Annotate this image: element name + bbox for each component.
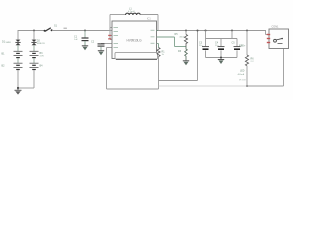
svg-text:LED: LED — [240, 71, 245, 73]
op-amp U1 — [112, 21, 157, 59]
svg-text:4.7mH: 4.7mH — [128, 11, 135, 13]
capacitor C1 — [74, 31, 89, 46]
capacitor C4 — [215, 42, 225, 50]
ground left — [15, 88, 22, 95]
node R5 top — [185, 30, 187, 32]
ground under C1 — [82, 46, 88, 51]
ground under C2 — [98, 51, 104, 56]
inductor L1 — [110, 8, 158, 16]
resistor R3 chain to ground — [178, 47, 187, 61]
svg-text:R6: R6 — [251, 58, 255, 61]
wire top right rail — [157, 30, 267, 32]
ground caps — [218, 60, 224, 65]
node ground join — [17, 87, 19, 89]
pad strip under U1 — [115, 53, 158, 60]
svg-text:LED+: LED+ — [240, 46, 246, 48]
wire IC pin5 down-left loop — [107, 48, 159, 90]
resistor R1 — [157, 48, 165, 57]
battery B4 — [30, 63, 44, 69]
svg-text:R5: R5 — [175, 33, 179, 36]
ground under R3 — [183, 61, 189, 66]
node junction col2 top — [33, 30, 35, 32]
svg-text:SMBJ33: SMBJ33 — [37, 43, 46, 45]
wire pin bus left of IC — [110, 15, 112, 40]
battery B2 — [2, 63, 23, 69]
battery B1 — [2, 51, 23, 63]
svg-text:L1: L1 — [129, 8, 132, 11]
wire battery bottoms to ground rail — [18, 70, 34, 88]
diode D1 — [2, 40, 21, 52]
svg-text:C2: C2 — [91, 41, 95, 44]
svg-text:B2: B2 — [2, 65, 6, 68]
wire inductor drop right — [157, 15, 159, 31]
node loop top — [197, 30, 199, 32]
svg-text:R1: R1 — [162, 51, 166, 54]
battery B3 — [30, 51, 45, 63]
node C5 top — [231, 30, 233, 32]
wire LED chain — [246, 31, 248, 56]
capacitor C2 — [91, 41, 112, 51]
svg-text:HV9910LG: HV9910LG — [127, 38, 143, 42]
resistor R6 — [245, 55, 254, 66]
wire into connector — [266, 31, 270, 35]
resistor R5 — [175, 31, 188, 47]
svg-text:400mA: 400mA — [238, 73, 245, 76]
svg-text:C5: C5 — [232, 42, 236, 45]
svg-text:IC1: IC1 — [147, 18, 151, 21]
wire caps to common ground — [206, 50, 238, 59]
svg-text:CON1: CON1 — [272, 26, 280, 29]
wire col2 drop — [33, 31, 35, 41]
svg-text:B4: B4 — [40, 65, 44, 68]
node LED chain bottom — [246, 85, 248, 87]
node LED chain top — [246, 30, 248, 32]
svg-text:B1: B1 — [2, 53, 6, 56]
net label VIN — [64, 28, 67, 29]
svg-text:B3: B3 — [40, 52, 44, 55]
svg-text:SMBJ: SMBJ — [6, 42, 12, 44]
svg-text:D2: D2 — [37, 40, 41, 43]
svg-text:1k: 1k — [162, 54, 165, 56]
svg-text:S1: S1 — [54, 25, 58, 28]
connector CON1 — [267, 26, 289, 49]
pin numbers left — [108, 27, 154, 48]
svg-text:Vf 3.5V: Vf 3.5V — [239, 80, 246, 82]
node junction C1 top — [84, 30, 86, 32]
capacitor C3 — [199, 42, 209, 50]
wire R1 bottom loop — [159, 31, 198, 90]
diode D2 — [31, 40, 45, 52]
capacitor C5 — [232, 42, 244, 50]
svg-text:4.8V: 4.8V — [40, 56, 45, 58]
svg-text:R3: R3 — [178, 50, 182, 53]
wire bottom return rail — [159, 49, 284, 87]
svg-text:1uF: 1uF — [74, 39, 78, 41]
wire pin gate green — [157, 37, 187, 47]
switch S1 — [44, 25, 58, 32]
node C3 top — [205, 30, 207, 32]
wire top main left — [18, 31, 110, 41]
svg-text:C1: C1 — [74, 36, 78, 39]
wire cap feeds — [206, 31, 238, 47]
svg-text:2.2: 2.2 — [251, 61, 255, 63]
node caps ground — [220, 57, 222, 59]
wire pin CS green — [157, 44, 159, 48]
